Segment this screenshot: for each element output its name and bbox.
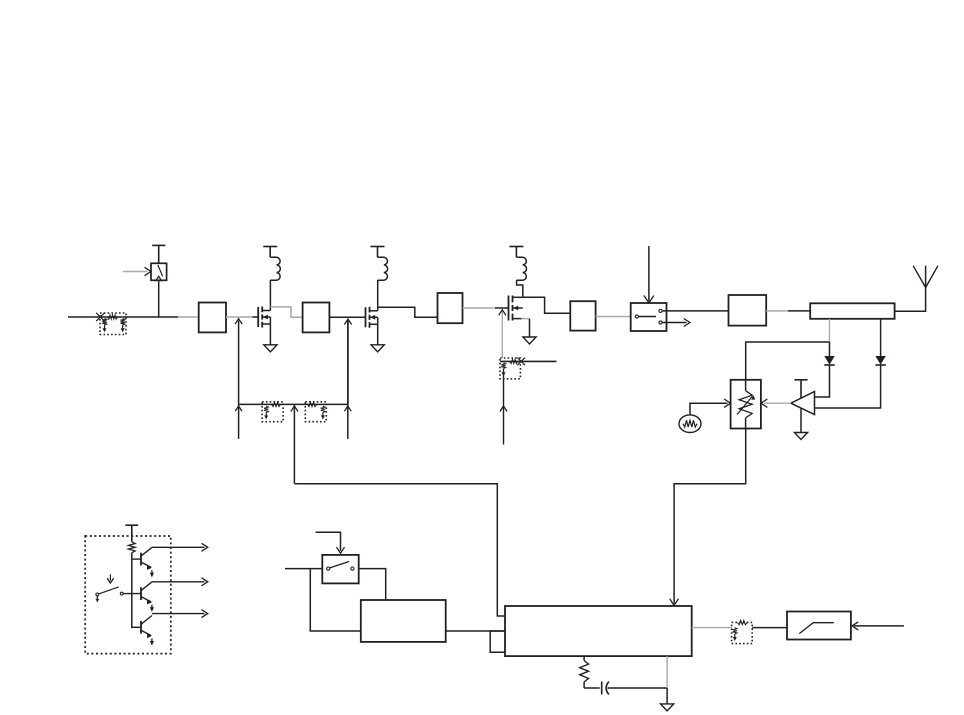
transistor Q2 collector xyxy=(141,582,152,591)
block box B2 xyxy=(303,303,330,333)
enable wire top xyxy=(316,532,341,550)
error amplifier A1 xyxy=(791,392,815,415)
wire gate lead M1 xyxy=(252,316,258,318)
S3 throw dot xyxy=(351,567,354,570)
transistor Q3 base bar xyxy=(140,621,142,634)
bias feed riser xyxy=(293,404,295,483)
ramp generator box xyxy=(787,612,851,640)
bias generator dotted module xyxy=(85,536,171,654)
transistor M3 body arrow xyxy=(513,307,523,309)
wire input to matching box (gray) xyxy=(178,316,199,318)
parasitic dotted box 5 xyxy=(732,622,753,643)
oscillator source V1 xyxy=(679,415,701,433)
bias switch control arrow (gray) xyxy=(123,271,148,273)
X mark at box2 corner xyxy=(517,358,525,366)
supply T-bar above L1 xyxy=(263,246,277,248)
M1 source rail xyxy=(269,317,271,345)
parasitic dotted box 3 xyxy=(262,402,283,422)
transistor M3 source stub xyxy=(513,318,523,320)
ramp input wire xyxy=(854,625,904,627)
wire B2 to M2 gate xyxy=(329,316,365,318)
M3 drain rail with jog xyxy=(517,280,523,297)
diode D2 xyxy=(875,356,885,365)
transistor M1 source stub xyxy=(262,323,270,325)
S2 alternate output arrow xyxy=(662,322,686,324)
ground under M2 xyxy=(371,345,384,352)
V1 to VR1 wire xyxy=(690,403,728,415)
wire B5 to coupler (gray then black) xyxy=(766,310,788,312)
S2 arm xyxy=(638,316,656,318)
antenna xyxy=(913,266,925,288)
X mark input xyxy=(96,313,104,321)
series squiggle box4 xyxy=(308,402,317,406)
series squiggle in box2 xyxy=(510,359,518,363)
supply T-bar above L2 xyxy=(371,246,385,248)
parasitic network dotted box 2 xyxy=(500,358,520,379)
ground under A1 xyxy=(794,433,807,440)
block box B1 xyxy=(199,303,226,333)
shunt resistor box3 xyxy=(264,406,268,413)
wire B4 to switch (gray) xyxy=(596,316,631,318)
gate feed arrow 3 (gray drop) xyxy=(501,311,503,358)
Q2 output arrow xyxy=(152,581,205,583)
transistor M2 gate bar xyxy=(365,307,367,327)
transistor Q3 emitter xyxy=(141,630,151,635)
transistor Q3 collector xyxy=(141,616,152,625)
S4 throw dot xyxy=(120,592,123,595)
supply T-bar above bias switch xyxy=(152,244,165,246)
wire box5 to ramp box xyxy=(752,627,787,629)
tap line below box2 xyxy=(503,369,505,445)
supply T-bar above A1 xyxy=(794,379,807,381)
A1 ground stem xyxy=(800,408,802,432)
parasitic dotted box 4 xyxy=(305,402,326,422)
gate feed arrow 2 xyxy=(347,321,349,405)
ramp curve xyxy=(799,623,834,634)
shunt resistor in box2 xyxy=(501,363,505,369)
wire M3 drain to B4 xyxy=(523,297,571,313)
transistor M1 body arrow xyxy=(262,316,270,318)
S4 pole stub xyxy=(96,596,98,600)
transistor M3 drain stub xyxy=(513,296,523,298)
feedback branch wire xyxy=(746,342,830,381)
VR1 to controller wire xyxy=(674,429,746,604)
transistor Q2 base bar xyxy=(140,587,142,600)
coupler tap 1 (gray) xyxy=(829,319,831,342)
bias switch blade xyxy=(158,265,163,276)
shunt resistor box4 xyxy=(321,406,325,413)
transistor Q1 emitter xyxy=(141,562,151,567)
M2 drain rail xyxy=(377,280,379,311)
wire B1 to M1 gate (gray) xyxy=(226,316,252,318)
wire B6 to U1 xyxy=(446,630,505,632)
bias switch box S1 xyxy=(151,263,167,280)
diode D1 xyxy=(824,356,834,365)
U1 output wire (gray) xyxy=(692,627,732,629)
VR1 zigzag resistor xyxy=(739,391,752,418)
transistor Q1 base bar xyxy=(140,553,142,566)
Q1 emitter stub xyxy=(151,570,153,573)
transistor M2 body arrow xyxy=(370,316,378,318)
wire S2 to B5 xyxy=(662,310,728,312)
U1 ground leg (gray upper) xyxy=(666,656,668,688)
drain inductor L1 xyxy=(270,257,280,280)
S3 blade xyxy=(330,562,349,568)
bias stub right xyxy=(347,321,349,405)
U1 input notch xyxy=(490,631,505,652)
VR1 wiper arrow xyxy=(737,396,752,414)
Q3 output arrow xyxy=(152,613,205,615)
S3 pole dot xyxy=(327,567,330,570)
modulator box B6 xyxy=(361,600,446,642)
series squiggle box5 xyxy=(738,620,748,624)
Q1 base wire xyxy=(132,558,141,560)
ground under M3 xyxy=(523,337,536,344)
wire bias switch to main line xyxy=(158,280,160,317)
wire M1 drain to B2 (gray) xyxy=(270,307,302,317)
series inductor squiggle input box xyxy=(108,315,118,319)
transistor M1 gate bar xyxy=(257,307,259,327)
tap1 to diode xyxy=(829,342,831,356)
shunt resistor right of box1 xyxy=(121,319,125,326)
wire S3 to box top xyxy=(359,569,386,600)
directional coupler box xyxy=(810,303,894,319)
drain inductor L3 xyxy=(517,257,527,280)
supply T-bar above module xyxy=(125,524,138,526)
transistor Q2 emitter xyxy=(141,597,151,602)
parasitic network dotted box 1 xyxy=(100,313,126,335)
Q1 output arrow xyxy=(152,546,205,548)
A1 output wire (gray) xyxy=(764,402,791,404)
M2 source rail xyxy=(377,317,379,345)
SPDT switch box S2 xyxy=(631,303,667,331)
stub wire from box2 xyxy=(500,360,556,362)
transistor M3 gate bar xyxy=(508,296,510,321)
M3 source drop xyxy=(529,319,531,337)
Q2 base wire xyxy=(122,593,141,595)
wire M2 drain to B3 xyxy=(378,307,438,317)
Q3 base wire xyxy=(132,626,141,628)
resistor R1 under U1 xyxy=(583,656,585,660)
module rail xyxy=(131,553,133,629)
S2 throw dot upper xyxy=(659,309,662,312)
wire RF input xyxy=(68,316,178,318)
D2 to amp input xyxy=(815,365,881,408)
drain inductor L2 xyxy=(378,257,388,280)
D1 to amp input xyxy=(815,365,830,397)
coupler tap 2 xyxy=(880,319,882,356)
transistor Q1 collector xyxy=(141,547,152,556)
gate feed arrow 1 xyxy=(238,321,240,405)
transistor M1 drain stub xyxy=(262,310,270,312)
wire coupler to antenna xyxy=(895,266,926,311)
transistor M1 channel xyxy=(261,307,263,313)
capacitor C1 xyxy=(584,687,600,689)
module resistor R2 xyxy=(128,542,135,553)
Q3 emitter stub xyxy=(151,639,153,642)
shunt resistor left of box1 xyxy=(102,319,106,326)
S4 actuate arrow xyxy=(109,574,111,580)
VR1 element lead top xyxy=(745,380,747,391)
controller box U1 xyxy=(505,606,692,656)
ground under U1 xyxy=(661,704,674,711)
series squiggle box3 xyxy=(272,402,281,406)
module select switch S4 blade xyxy=(99,587,119,594)
Q2 emitter stub xyxy=(151,605,153,608)
block box B5 xyxy=(729,295,767,326)
S4 pole dot xyxy=(96,593,99,596)
transistor M2 channel xyxy=(369,307,371,313)
branch down to ramp box input xyxy=(310,569,361,631)
block box B3 xyxy=(438,293,463,323)
transistor M2 source stub xyxy=(370,323,378,325)
transistor M3 channel xyxy=(512,296,514,303)
wire B3 to M3 gate (gray then black) xyxy=(463,307,496,309)
supply T-bar above L3 xyxy=(509,246,523,248)
S2 pole dot xyxy=(635,315,638,318)
shunt resistor box5 xyxy=(733,628,737,634)
wire into S3 xyxy=(285,568,322,570)
enable switch box S3 xyxy=(322,555,358,584)
S2 throw dot lower xyxy=(659,321,662,324)
bias stub left xyxy=(238,404,240,438)
transistor M2 drain stub xyxy=(370,310,378,312)
gate bias bus wire xyxy=(239,403,348,405)
variable attenuator box VR1 xyxy=(731,380,761,429)
ground under M1 xyxy=(264,345,277,352)
M3 source lead (gray) xyxy=(521,318,530,320)
M1 drain rail xyxy=(269,280,271,311)
S2 control line xyxy=(648,246,650,302)
VR1 element lead bottom xyxy=(745,418,747,429)
block box B4 xyxy=(570,301,595,330)
bias feed to controller wire xyxy=(294,484,505,616)
